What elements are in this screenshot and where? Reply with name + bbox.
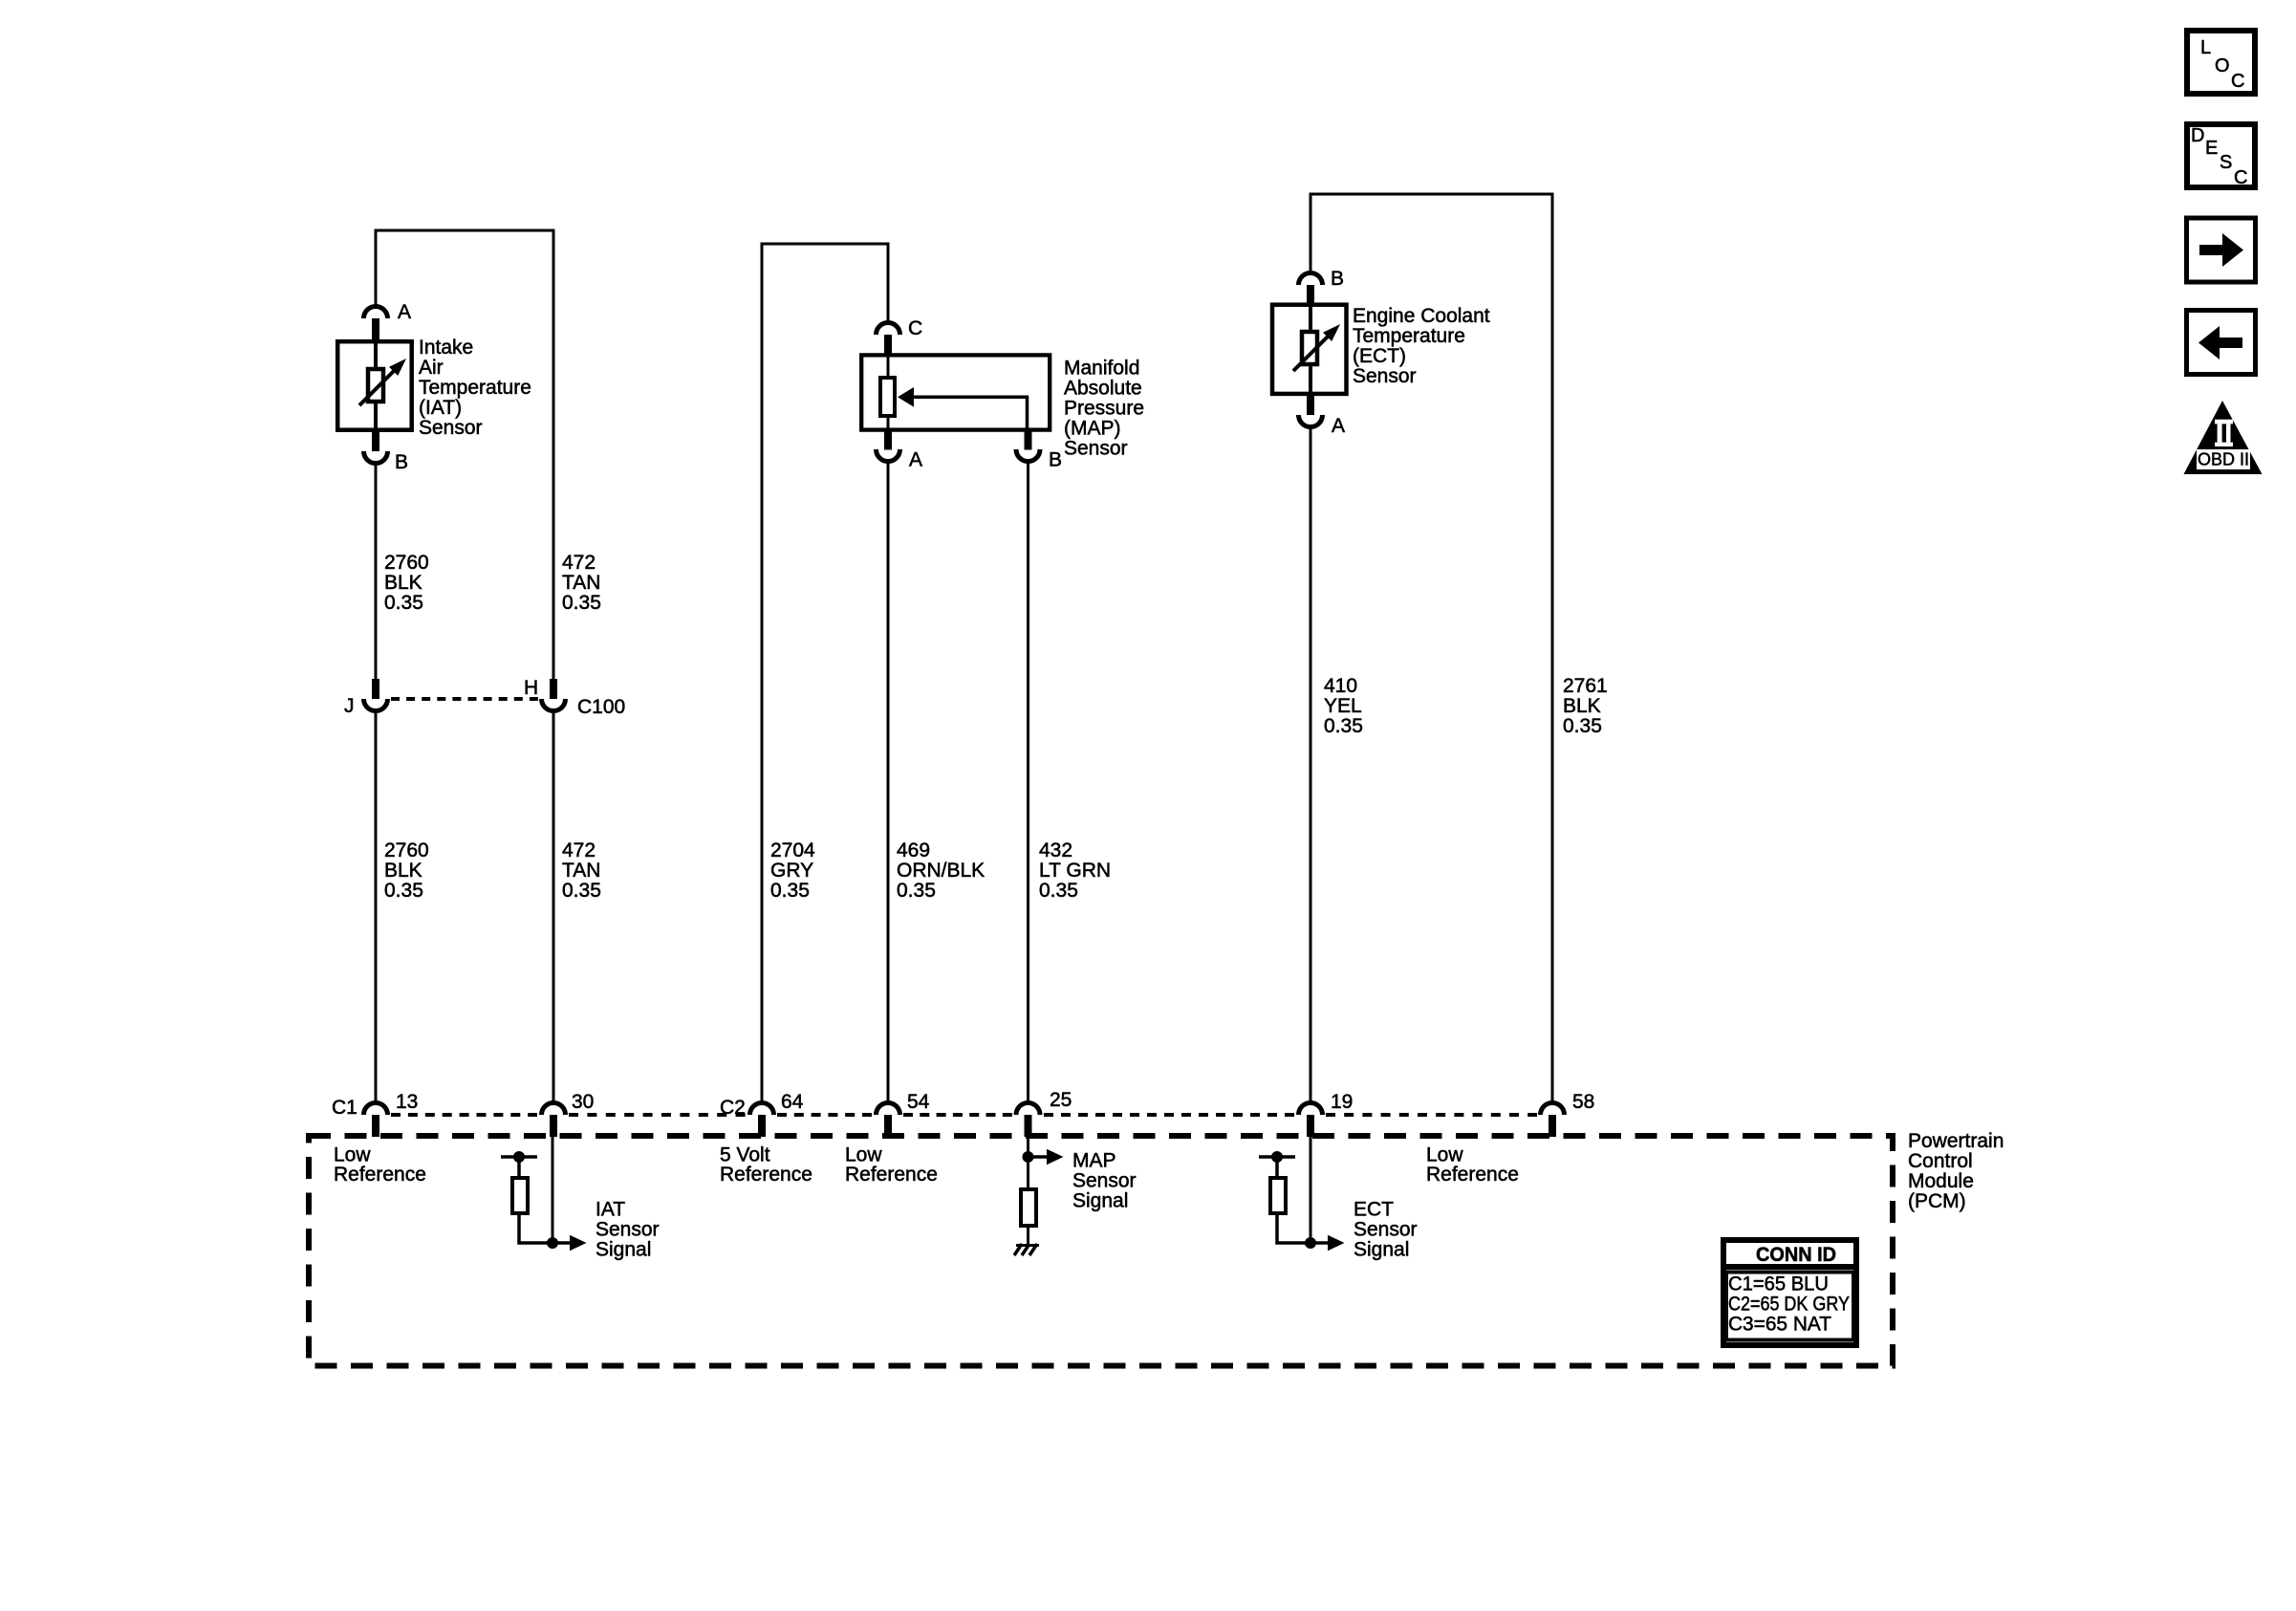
svg-text:0.35: 0.35 [384, 592, 423, 614]
wire label 2761 BLK 0.35 [1563, 675, 1608, 737]
svg-text:(PCM): (PCM) [1908, 1190, 1966, 1212]
icon: LOC box [2187, 31, 2255, 94]
svg-text:469: 469 [897, 839, 930, 861]
wire: inside ECT box upper [1309, 302, 1312, 335]
MAP wiper arrow (horizontal, pointing left) [898, 387, 1028, 431]
svg-text:0.35: 0.35 [384, 880, 423, 902]
wire 469 ORN/BLK (MAP A to PCM pin 54) [887, 463, 890, 1102]
svg-text:Reference: Reference [845, 1164, 938, 1186]
svg-text:J: J [344, 695, 355, 717]
MAP signal arrow [1029, 1149, 1064, 1165]
svg-text:(MAP): (MAP) [1064, 418, 1121, 440]
dotted pin header line segment 54-25 [903, 1113, 1012, 1117]
svg-text:A: A [909, 449, 922, 471]
svg-text:YEL: YEL [1324, 695, 1362, 717]
svg-text:Sensor: Sensor [419, 417, 483, 439]
wire: ECT pull-up lower L to junction [1277, 1213, 1310, 1243]
IAT signal arrow [552, 1235, 587, 1252]
svg-text:C1: C1 [332, 1097, 357, 1119]
svg-text:19: 19 [1331, 1091, 1353, 1113]
svg-text:64: 64 [781, 1091, 804, 1113]
connector pin H of C100 [542, 679, 566, 711]
label: MAP Sensor Signal [1072, 1150, 1137, 1212]
wire label 410 YEL 0.35 [1324, 675, 1363, 737]
svg-text:Signal: Signal [1072, 1190, 1128, 1212]
svg-text:472: 472 [562, 552, 596, 574]
svg-text:Reference: Reference [720, 1164, 812, 1186]
junction dot (IAT pull-up top) [513, 1151, 525, 1163]
svg-text:30: 30 [572, 1091, 594, 1113]
CONN ID table [1721, 1240, 1859, 1345]
svg-text:(ECT): (ECT) [1353, 345, 1406, 367]
MAP potentiometer resistor body [880, 378, 895, 416]
svg-text:LT GRN: LT GRN [1039, 860, 1111, 882]
PCM connector pin 25 [1016, 1103, 1040, 1138]
ECT signal arrow [1310, 1235, 1345, 1252]
label: Low Reference (pin 58) [1426, 1144, 1519, 1186]
svg-text:Sensor: Sensor [1354, 1219, 1418, 1241]
wire: MAP resistor to ground [1027, 1226, 1029, 1245]
PCM connector pin 64 (C2) [750, 1103, 774, 1138]
PCM connector pin 58 [1541, 1103, 1565, 1138]
svg-text:C: C [2234, 167, 2247, 188]
svg-text:Sensor: Sensor [596, 1219, 660, 1241]
svg-text:C2=65 DK GRY: C2=65 DK GRY [1728, 1294, 1850, 1316]
label: Low Reference (pin 13) [334, 1144, 426, 1186]
svg-text:Sensor: Sensor [1064, 438, 1128, 460]
svg-text:13: 13 [396, 1091, 418, 1113]
label: Powertrain Control Module (PCM) [1908, 1130, 2004, 1212]
wire: inside MAP box lower [887, 413, 890, 431]
svg-text:0.35: 0.35 [562, 592, 601, 614]
icon: back arrow box [2187, 311, 2256, 375]
label: Manifold Absolute Pressure (MAP) Sensor [1064, 358, 1144, 460]
wire label 469 ORN/BLK 0.35 [897, 839, 985, 902]
svg-text:Powertrain: Powertrain [1908, 1130, 2004, 1152]
icon: forward arrow box [2187, 218, 2256, 282]
svg-text:54: 54 [907, 1091, 930, 1113]
svg-text:Intake: Intake [419, 337, 473, 359]
svg-text:A: A [398, 301, 411, 323]
wire: MAP loop top horizontal [762, 243, 888, 246]
svg-text:B: B [395, 451, 408, 473]
wire: inside MAP box upper [887, 356, 890, 379]
svg-text:Manifold: Manifold [1064, 358, 1139, 380]
svg-text:2704: 2704 [770, 839, 815, 861]
svg-text:ORN/BLK: ORN/BLK [897, 860, 985, 882]
svg-text:Signal: Signal [596, 1239, 651, 1261]
wire 2760 BLK upper (IAT pin B to C100 J) [375, 466, 378, 680]
svg-text:Sensor: Sensor [1072, 1170, 1137, 1192]
svg-text:B: B [1331, 268, 1344, 290]
svg-text:D: D [2191, 125, 2204, 146]
dotted pin header line segment 64-54 [777, 1113, 872, 1117]
connector pin A of IAT sensor [364, 307, 388, 340]
wire: IAT pull-up lower L to junction [519, 1213, 552, 1243]
wire: IAT loop top horizontal [376, 229, 553, 232]
svg-text:2760: 2760 [384, 839, 429, 861]
dotted pin header line segment 25-19 [1044, 1113, 1294, 1117]
label: Engine Coolant Temperature (ECT) Sensor [1353, 305, 1490, 387]
icon: OBD II triangle [2184, 401, 2263, 474]
svg-text:BLK: BLK [384, 572, 422, 594]
MAP sensor box [861, 355, 1050, 429]
connector pin B of ECT sensor [1299, 273, 1323, 304]
wire 432 LT GRN (MAP B to PCM pin 25) [1027, 463, 1029, 1102]
label: Low Reference (pin 54) [845, 1144, 938, 1186]
svg-text:C100: C100 [577, 696, 625, 718]
thermistor (IAT) arrow [359, 359, 406, 405]
svg-text:E: E [2205, 138, 2218, 159]
svg-text:TAN: TAN [562, 572, 600, 594]
svg-text:BLK: BLK [1563, 695, 1601, 717]
svg-text:Signal: Signal [1354, 1239, 1409, 1261]
svg-text:Control: Control [1908, 1150, 1973, 1172]
connector pin B of MAP sensor [1016, 431, 1040, 461]
wire 2761 BLK (ECT loop to PCM pin 58) [1551, 193, 1554, 1103]
wire: ECT loop top horizontal [1310, 193, 1552, 196]
svg-text:IAT: IAT [596, 1199, 625, 1221]
PCM dashed border box [309, 1136, 1893, 1366]
svg-text:BLK: BLK [384, 860, 422, 882]
wire label 472 TAN 0.35 (upper) [562, 552, 601, 614]
svg-text:410: 410 [1324, 675, 1357, 697]
wire 2704 GRY (5V ref vertical to PCM pin 64) [761, 243, 764, 1103]
svg-text:0.35: 0.35 [897, 880, 936, 902]
label: 5 Volt Reference (pin 64) [720, 1144, 812, 1186]
wire 410 YEL (ECT A to PCM pin 19) [1310, 428, 1312, 1102]
svg-text:0.35: 0.35 [1563, 715, 1602, 737]
svg-text:H: H [524, 677, 538, 699]
connector pin A of MAP sensor [877, 431, 900, 461]
wire: inside IAT box upper [374, 339, 378, 369]
PCM connector pin 30 [542, 1103, 566, 1138]
svg-text:0.35: 0.35 [1039, 880, 1078, 902]
wire: pin 30 to IAT signal junction [552, 1137, 554, 1243]
svg-text:ECT: ECT [1354, 1199, 1394, 1221]
wire label 2760 BLK 0.35 (upper) [384, 552, 429, 614]
svg-text:L: L [2200, 37, 2211, 58]
svg-text:432: 432 [1039, 839, 1072, 861]
svg-text:Temperature: Temperature [419, 377, 531, 399]
svg-text:2760: 2760 [384, 552, 429, 574]
dashed connector line between J and H [391, 697, 538, 701]
PCM connector pin 13 (C1) [364, 1103, 388, 1138]
svg-text:C2: C2 [720, 1097, 746, 1119]
label: Intake Air Temperature (IAT) Sensor [419, 337, 531, 439]
PCM connector pin 54 [877, 1103, 900, 1138]
svg-text:MAP: MAP [1072, 1150, 1116, 1172]
svg-text:A: A [1332, 415, 1345, 437]
thermistor (ECT) arrow [1293, 324, 1340, 371]
svg-text:GRY: GRY [770, 860, 813, 882]
svg-text:C3=65 NAT: C3=65 NAT [1728, 1314, 1831, 1336]
wire: IAT right vertical 472 TAN upper [552, 229, 555, 680]
junction dot (ECT pull-up top) [1271, 1151, 1283, 1163]
resistor (ECT pull-up) [1270, 1178, 1286, 1213]
svg-text:S: S [2220, 152, 2232, 173]
PCM connector pin 19 [1299, 1103, 1323, 1138]
wire label 432 LT GRN 0.35 [1039, 839, 1111, 902]
svg-text:0.35: 0.35 [562, 880, 601, 902]
junction dot (MAP signal) [1023, 1151, 1034, 1163]
svg-text:Pressure: Pressure [1064, 398, 1144, 420]
label: IAT Sensor Signal [596, 1199, 660, 1261]
IAT sensor box [337, 341, 412, 430]
svg-text:58: 58 [1572, 1091, 1594, 1113]
label: ECT Sensor Signal [1354, 1199, 1418, 1261]
wire: IAT pull-up upper stub [517, 1157, 521, 1178]
svg-text:C1=65 BLU: C1=65 BLU [1728, 1274, 1829, 1295]
svg-text:Absolute: Absolute [1064, 378, 1142, 400]
svg-text:0.35: 0.35 [1324, 715, 1363, 737]
wire label 2704 GRY 0.35 [770, 839, 815, 902]
svg-text:Engine Coolant: Engine Coolant [1353, 305, 1490, 327]
wire label 2760 BLK 0.35 (lower) [384, 839, 429, 902]
junction dot (IAT signal) [547, 1237, 558, 1249]
svg-text:C: C [2231, 71, 2244, 92]
svg-text:OBD II: OBD II [2198, 450, 2249, 469]
wire: MAP pin C vertical [887, 243, 890, 323]
svg-text:2761: 2761 [1563, 675, 1608, 697]
ECT sensor box [1272, 305, 1347, 394]
svg-text:Temperature: Temperature [1353, 325, 1465, 347]
connector pin J of C100 [364, 679, 388, 711]
svg-text:C: C [908, 317, 922, 339]
svg-text:472: 472 [562, 839, 596, 861]
connector pin B of IAT sensor [364, 431, 388, 463]
svg-text:25: 25 [1050, 1089, 1072, 1111]
svg-text:Reference: Reference [1426, 1164, 1519, 1186]
wire: inside ECT box lower [1309, 366, 1312, 394]
icon: DESC box [2187, 124, 2255, 188]
svg-text:CONN ID: CONN ID [1756, 1244, 1836, 1266]
ECT pull-up top tick [1259, 1155, 1295, 1159]
dotted pin header line segment 13-30 [391, 1113, 537, 1117]
wire label 472 TAN 0.35 (lower) [562, 839, 601, 902]
svg-text:0.35: 0.35 [770, 880, 810, 902]
wire: inside IAT box lower [374, 402, 378, 430]
wire: ECT pull-up upper stub [1275, 1157, 1279, 1178]
junction dot (ECT signal) [1305, 1237, 1316, 1249]
wire: pin 25 to MAP signal junction [1027, 1137, 1029, 1189]
svg-text:Air: Air [419, 357, 444, 379]
thermistor (IAT) resistor body [368, 369, 383, 402]
dotted pin header line segment 30-64 [569, 1113, 746, 1117]
wire 472 TAN lower (C100 H to PCM pin 30) [552, 713, 555, 1103]
dotted pin header line segment 19-58 [1326, 1113, 1537, 1117]
svg-text:Reference: Reference [334, 1164, 426, 1186]
svg-text:B: B [1049, 449, 1062, 471]
wire: pin 19 to ECT signal junction [1310, 1137, 1312, 1243]
svg-text:Sensor: Sensor [1353, 365, 1417, 387]
IAT pull-up top tick [501, 1155, 537, 1159]
resistor (IAT pull-up) [512, 1178, 528, 1213]
resistor (MAP signal load) [1021, 1189, 1036, 1226]
svg-text:TAN: TAN [562, 860, 600, 882]
ground symbol (MAP signal) [1014, 1244, 1039, 1255]
svg-text:Module: Module [1908, 1170, 1974, 1192]
connector pin A of ECT sensor [1299, 396, 1323, 427]
svg-text:(IAT): (IAT) [419, 397, 462, 419]
connector pin C of MAP sensor [877, 323, 900, 357]
wire 2760 BLK lower (C100 J to PCM pin 13) [375, 713, 378, 1103]
wire: ECT left vertical (to pin B) [1310, 193, 1312, 273]
svg-text:O: O [2215, 55, 2230, 76]
thermistor (ECT) resistor body [1302, 332, 1317, 364]
wire: IAT left vertical (to pin A) [375, 229, 378, 307]
